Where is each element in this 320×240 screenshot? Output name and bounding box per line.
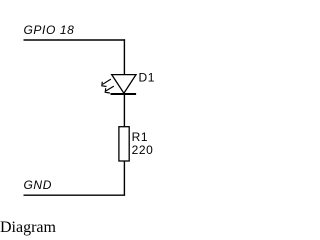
wire GND rail xyxy=(24,194,126,196)
svg-text:220: 220 xyxy=(132,143,154,157)
svg-text:GPIO 18: GPIO 18 xyxy=(24,23,75,37)
wire LED cathode to resistor R1 xyxy=(123,94,125,127)
resistor R1 xyxy=(119,127,129,161)
LED D1 xyxy=(102,75,136,94)
wire GPIO 18 rail to LED anode xyxy=(123,39,125,74)
wire GPIO 18 rail xyxy=(24,39,126,41)
wire resistor R1 to GND rail xyxy=(123,161,125,195)
svg-text:GND: GND xyxy=(24,178,52,192)
svg-text:D1: D1 xyxy=(139,70,156,84)
